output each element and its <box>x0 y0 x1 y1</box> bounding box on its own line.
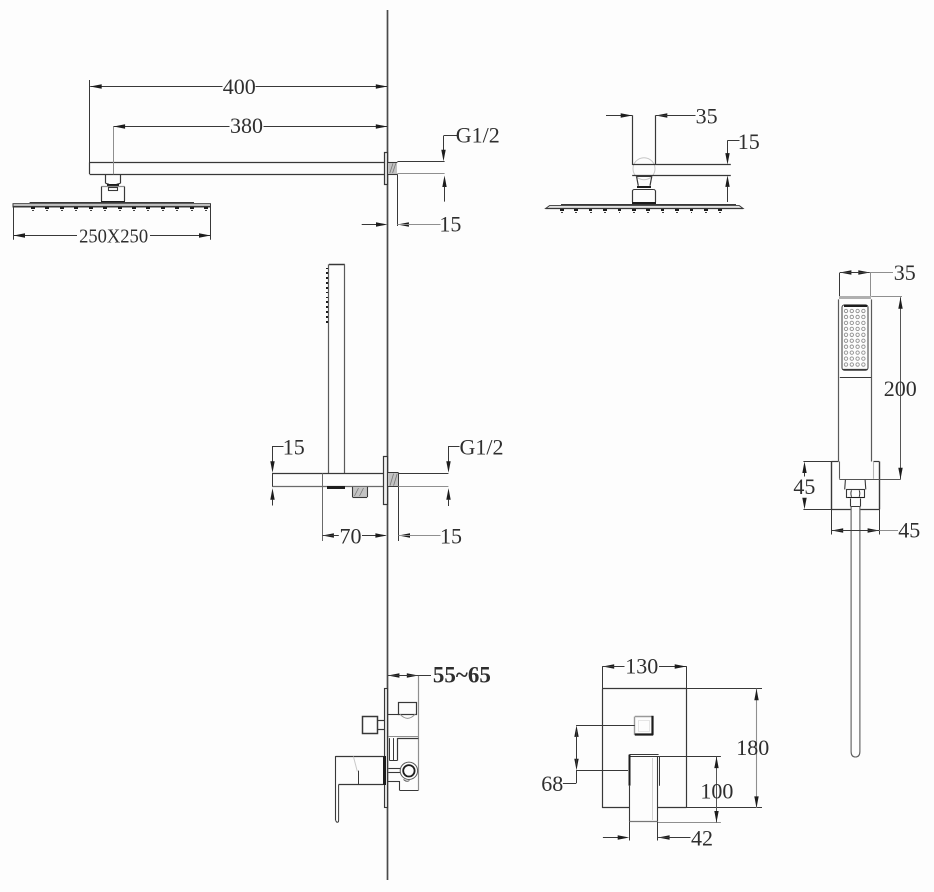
dim 45 D-left <box>793 462 831 510</box>
wand joint line D <box>840 377 871 379</box>
svg-text:G1/2: G1/2 <box>460 435 504 460</box>
hand shower wand C <box>329 264 345 473</box>
escutcheon E <box>385 689 388 808</box>
spray dots C <box>326 268 328 323</box>
valve bottom step E <box>388 781 419 791</box>
svg-text:15: 15 <box>440 523 462 548</box>
shower plate B <box>546 205 744 209</box>
dim 45 D-bottom <box>832 509 921 542</box>
dim 35 D <box>840 260 916 297</box>
swivel nut B <box>637 176 652 185</box>
dim 400 <box>90 74 388 163</box>
dim 70 <box>322 473 387 548</box>
dim 15 C-bottom <box>399 487 463 548</box>
wand bottom line D <box>839 479 900 481</box>
label G1/2 A <box>441 123 499 162</box>
hose nipple C <box>352 487 368 498</box>
dim 15 A-bottom <box>362 174 462 236</box>
wall flange A <box>385 153 388 185</box>
handle base band E <box>383 756 386 785</box>
svg-text:35: 35 <box>894 260 916 285</box>
handle E <box>336 756 384 822</box>
valve top port E <box>399 703 417 719</box>
dim 200 <box>871 297 917 480</box>
dim 42 <box>603 822 713 851</box>
dim 55~65 <box>388 663 491 688</box>
svg-text:250X250: 250X250 <box>79 226 148 247</box>
svg-text:15: 15 <box>283 435 305 460</box>
svg-text:70: 70 <box>340 523 362 548</box>
valve body right edge E <box>418 676 420 791</box>
dim 180 <box>686 689 769 808</box>
svg-text:55~65: 55~65 <box>433 663 491 688</box>
head swivel neck A <box>106 174 121 184</box>
mixer handle F <box>629 755 660 822</box>
mixer plate F <box>602 689 686 808</box>
head mount cup A <box>101 187 125 203</box>
dim 380 <box>114 113 388 174</box>
wall nipple C (hatched) <box>388 473 399 488</box>
inlet lines E <box>388 769 400 773</box>
hose nut stack D <box>845 480 866 507</box>
wall flange C <box>384 457 388 505</box>
dim 68 <box>541 725 635 795</box>
shower plate A <box>13 203 211 208</box>
bracket D <box>832 462 880 510</box>
diverter knob E <box>363 717 385 734</box>
dim 15 B <box>725 129 759 202</box>
svg-text:200: 200 <box>884 376 917 401</box>
mount cup B <box>632 189 656 204</box>
pipe stub lines C <box>398 474 448 487</box>
cartridge circle E <box>400 762 417 781</box>
svg-text:42: 42 <box>691 825 713 850</box>
wand end cap C <box>327 486 345 489</box>
dim 250X250 <box>14 207 211 247</box>
dim 15 A-thick <box>442 176 446 202</box>
collar B <box>637 186 651 188</box>
dim 130 <box>603 654 687 689</box>
nozzles B <box>560 209 722 213</box>
dim 15 C-right-up <box>446 488 450 506</box>
valve mid body E <box>388 737 418 761</box>
label G1/2 C <box>446 435 503 473</box>
ball joint B <box>633 158 655 180</box>
bracket bar C <box>272 473 387 486</box>
spray holes D <box>844 309 865 366</box>
svg-text:380: 380 <box>230 113 263 138</box>
svg-text:130: 130 <box>625 654 658 679</box>
dim 100 <box>658 757 734 823</box>
hose D <box>851 507 860 758</box>
svg-text:15: 15 <box>738 129 760 154</box>
shower arm (side view) <box>90 163 388 175</box>
line to top port E <box>388 714 399 716</box>
wand body D <box>839 299 872 461</box>
svg-text:400: 400 <box>223 74 256 99</box>
svg-text:45: 45 <box>793 474 815 499</box>
nozzles A <box>31 207 208 211</box>
svg-text:G1/2: G1/2 <box>456 123 500 148</box>
wall line <box>387 10 389 880</box>
dim 15 C-left <box>270 435 304 506</box>
svg-text:180: 180 <box>736 735 769 760</box>
swivel washer A <box>107 184 119 186</box>
pipe stub lines A <box>397 162 444 174</box>
cross bar B <box>632 165 731 176</box>
svg-text:68: 68 <box>541 771 563 796</box>
arm strip B <box>633 115 656 165</box>
wand through bracket D <box>840 462 874 479</box>
svg-text:45: 45 <box>898 518 920 543</box>
svg-text:15: 15 <box>439 212 461 237</box>
svg-text:35: 35 <box>696 104 718 129</box>
wand cap D <box>839 296 871 299</box>
svg-text:100: 100 <box>700 778 733 803</box>
threaded nipple A (hatched) <box>388 162 397 175</box>
diverter button F <box>635 716 654 735</box>
spray face D <box>842 305 868 370</box>
dim 35 B <box>606 104 718 129</box>
